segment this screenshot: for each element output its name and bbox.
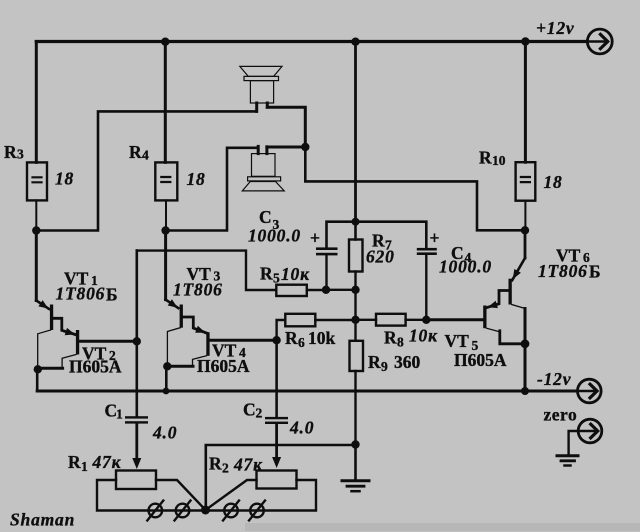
- resistor R10: [516, 162, 536, 201]
- resistor R7: [354, 225, 357, 240]
- wire C3 bottom to junction F: [325, 255, 327, 289]
- svg-text:9: 9: [381, 359, 388, 374]
- svg-text:8: 8: [397, 335, 404, 350]
- svg-text:П605А: П605А: [197, 356, 250, 376]
- wire C4 bottom to node H: [425, 255, 427, 320]
- wire feedback drop to VT2 collector node: [136, 251, 139, 417]
- transistor VT2: [76, 330, 79, 355]
- wire node E left to C3 top: [327, 222, 356, 248]
- svg-text:+12v: +12v: [536, 18, 574, 38]
- node junction R3-bottom (36.3,230.5): [32, 226, 40, 234]
- wire R4 bottom to junction: [165, 200, 167, 230]
- wire R6 left lead down to node K: [277, 320, 286, 340]
- transistor VT3: [164, 231, 167, 300]
- node R center junction (205.5,510): [201, 506, 210, 515]
- svg-text:R: R: [368, 352, 381, 372]
- node I VT2 collector (137,341.3): [133, 337, 141, 345]
- node G down to node J: [354, 290, 356, 320]
- svg-text:R: R: [209, 454, 222, 474]
- speaker BA2 pins: [257, 146, 260, 153]
- potentiometer R2: [257, 471, 297, 489]
- wire from rail down to R10: [524, 42, 527, 163]
- node M (355.5,444.5): [351, 440, 359, 448]
- svg-text:1T806: 1T806: [56, 284, 106, 304]
- node L (426.3,319.8): [422, 316, 430, 324]
- wire C1 bottom with wiper arrow onto R1: [135, 424, 138, 459]
- wire R7 bottom to node G: [354, 272, 356, 290]
- svg-text:1T806: 1T806: [173, 280, 223, 300]
- wire R2 right lead: [209, 480, 316, 511]
- svg-text:4.0: 4.0: [152, 423, 177, 443]
- wire node L to VT5 base: [426, 318, 483, 321]
- svg-text:R: R: [260, 264, 273, 284]
- wire node E right to C4 top: [356, 222, 427, 248]
- transistor VT5: [483, 306, 486, 329]
- wire R2 left lead diagonal to node R: [206, 480, 257, 510]
- wire node O down to rail: [36, 369, 39, 391]
- wire R10 bottom to junction N: [524, 201, 526, 231]
- wire junction to speaker2 left pin riser: [166, 148, 259, 231]
- svg-text:+: +: [430, 228, 440, 248]
- wire speaker BA1 right pin to node D: [267, 107, 305, 147]
- node P (167.3,366.3): [163, 362, 171, 370]
- svg-text:П605А: П605А: [69, 357, 122, 377]
- resistor R4: [155, 162, 177, 200]
- wire speaker BA2 right pin to node D: [267, 146, 305, 149]
- svg-text:1000.0: 1000.0: [439, 257, 492, 277]
- wire node F to node G: [326, 289, 356, 291]
- capacitor C3: [316, 247, 338, 250]
- node E (355.5,221.7): [352, 218, 360, 226]
- node N (525,230.3): [521, 226, 529, 234]
- wire from rail down to R3: [35, 42, 38, 163]
- node K (276.6,340.2): [272, 336, 280, 344]
- svg-text:Б: Б: [106, 285, 118, 305]
- resistor R8: [356, 319, 377, 321]
- node rail junction (166,391): [163, 388, 170, 395]
- svg-text:18: 18: [544, 172, 563, 192]
- ground GND2: [557, 454, 578, 457]
- wire R3 bottom to junction: [35, 200, 37, 230]
- connector jack 1: [147, 501, 163, 521]
- svg-text:10к: 10к: [281, 264, 310, 284]
- speaker BA2 (bottom, cone down): [242, 154, 284, 191]
- svg-text:П605А: П605А: [454, 350, 507, 370]
- connector +12v circle with arrow: [587, 29, 612, 54]
- node rail junction (525,391): [521, 387, 529, 395]
- svg-text:47к: 47к: [92, 452, 122, 472]
- capacitor C2: [265, 417, 288, 419]
- svg-text:R: R: [4, 142, 17, 162]
- resistor R6: [285, 314, 315, 327]
- capacitor C1: [125, 416, 148, 418]
- svg-text:1: 1: [81, 459, 88, 474]
- svg-text:R: R: [68, 452, 81, 472]
- wire junction to speaker1 left pin riser: [36, 111, 256, 230]
- svg-text:3: 3: [17, 147, 24, 162]
- node O (37.8,369.3): [34, 365, 42, 373]
- wire VT6 collector chain down to rail: [524, 309, 527, 392]
- node top rail junction C (525.4,41): [521, 37, 529, 45]
- node D (305.3,147): [301, 143, 309, 151]
- svg-text:18: 18: [187, 169, 206, 189]
- svg-text:18: 18: [55, 169, 74, 189]
- node F (326,289.8): [322, 286, 330, 294]
- svg-text:1000.0: 1000.0: [248, 226, 301, 246]
- wire zero to ground: [569, 431, 579, 454]
- resistor R9: [354, 320, 356, 341]
- speaker BA1 pins: [255, 103, 258, 111]
- svg-text:-12v: -12v: [537, 369, 571, 389]
- svg-text:C: C: [259, 207, 272, 227]
- connector jack 2: [175, 501, 191, 521]
- node junction R4-bottom (165.6,230.5): [161, 226, 169, 234]
- wire R6 right to node J: [315, 319, 355, 321]
- svg-text:Б: Б: [589, 262, 601, 282]
- svg-text:6: 6: [298, 335, 305, 350]
- svg-text:5: 5: [273, 271, 280, 286]
- wire from rail down to R4: [164, 42, 167, 163]
- node top rail junction A (165,41.5): [161, 38, 169, 46]
- svg-text:360: 360: [394, 352, 421, 372]
- svg-text:620: 620: [366, 247, 395, 267]
- connector -12v circle with arrow: [578, 379, 602, 403]
- node Q (525,343.8): [521, 339, 530, 348]
- svg-text:4.0: 4.0: [289, 418, 314, 438]
- svg-text:zero: zero: [544, 405, 578, 425]
- svg-text:2: 2: [222, 461, 229, 476]
- potentiometer R1: [116, 471, 156, 490]
- wire R5 left lead up to feedback line: [137, 251, 276, 290]
- wire C2 bottom with wiper arrow onto R2: [275, 424, 278, 458]
- node J (355.5,319.8): [351, 316, 359, 324]
- ground GND1: [354, 445, 357, 481]
- transistor VT6: [524, 230, 527, 258]
- svg-text:1: 1: [116, 407, 123, 422]
- svg-text:10k: 10k: [308, 328, 336, 348]
- svg-text:VT: VT: [445, 331, 470, 351]
- speaker BA1 (top, cone up): [240, 66, 282, 103]
- wire bottom -12v rail: [37, 390, 577, 393]
- connector zero circle with arrow: [578, 419, 602, 443]
- svg-text:R: R: [479, 148, 492, 168]
- capacitor C4: [417, 248, 437, 251]
- svg-text:R: R: [384, 328, 397, 348]
- svg-text:+: +: [310, 228, 320, 248]
- wire node D down and right to R10 bottom junction: [305, 147, 525, 230]
- wire node P down to rail: [165, 366, 168, 391]
- wire R1 right lead diagonal to node R: [156, 480, 206, 510]
- connector jack 4: [249, 501, 265, 521]
- transistor VT1: [35, 231, 38, 301]
- wire R9 bottom down through rail to node M: [354, 371, 356, 445]
- svg-text:C: C: [243, 400, 256, 420]
- wire R8 right to node L: [406, 319, 427, 321]
- svg-text:10: 10: [492, 153, 506, 168]
- svg-text:1T806: 1T806: [538, 261, 588, 281]
- svg-text:4: 4: [142, 148, 149, 163]
- wire R1 left lead: [97, 480, 202, 511]
- node G (355.5,289.8): [351, 286, 359, 294]
- connector jack 3: [223, 501, 239, 521]
- svg-text:Shaman: Shaman: [10, 510, 75, 530]
- wire from rail down to node E (355.5,221.7): [354, 42, 357, 222]
- resistor R3: [27, 162, 47, 200]
- svg-text:2: 2: [256, 406, 263, 421]
- svg-text:47к: 47к: [233, 455, 263, 475]
- transistor VT4: [206, 332, 209, 356]
- wire top +12v rail: [36, 40, 587, 43]
- svg-text:R: R: [285, 328, 298, 348]
- wire node R up and right to node M: [206, 445, 356, 510]
- svg-text:10к: 10к: [409, 326, 438, 346]
- svg-text:R: R: [129, 142, 142, 162]
- wire node K down to C2: [275, 340, 278, 417]
- wire R5 right to node F: [307, 289, 326, 291]
- node top rail junction B (355.5,41.7): [351, 38, 359, 46]
